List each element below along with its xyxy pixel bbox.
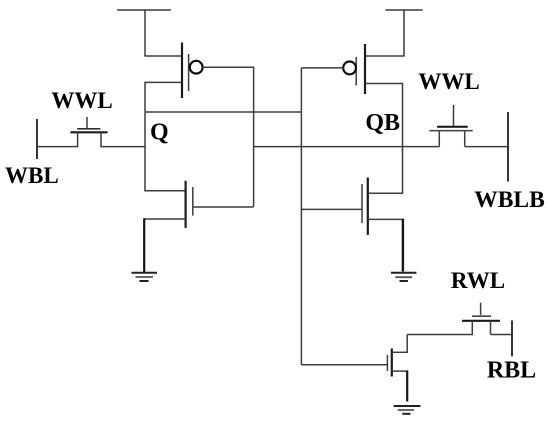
nmos M8 channel	[462, 320, 500, 322]
nmos M5 gate bar	[77, 128, 100, 130]
pmos M3 gate bar	[355, 57, 357, 86]
wire M5 drain lead to node Q	[100, 146, 146, 148]
nmos M4 gate bar	[361, 184, 363, 223]
wire M6 source drop	[438, 131, 440, 147]
svg-text:QB: QB	[365, 110, 400, 136]
nmos M6 channel	[429, 130, 472, 132]
wire M6 drain drop	[464, 131, 466, 147]
pmos M3 gate bubble	[343, 62, 356, 75]
nmos M6 gate bar	[437, 126, 468, 128]
nmos M7 channel	[391, 348, 393, 376]
wire M3 drain lead	[365, 83, 403, 85]
wire M1 source lead	[144, 55, 182, 57]
nmos M5 (WWL left access) gate stub	[86, 117, 88, 129]
wire M6 drain lead to WBLB	[465, 146, 508, 148]
node QB vertical (right inverter output)	[402, 83, 404, 193]
wire M7 drain lead	[392, 351, 407, 353]
wire M3 source lead	[365, 55, 405, 57]
wire M1 gate lead to node QBint	[203, 66, 255, 68]
node Q vertical (left inverter output)	[144, 82, 146, 191]
node Qint long vertical (right inverter input, to read gate)	[300, 68, 302, 365]
nmos M5 channel	[70, 131, 107, 133]
nmos M4 (right pull-down) channel	[367, 178, 369, 235]
wire M7 source to ground	[406, 370, 408, 401]
wire M8 drain lead to RBL	[491, 334, 512, 336]
wire M5 source drop	[77, 132, 79, 146]
pmos M1 gate bubble	[190, 61, 203, 74]
wire M2 drain lead	[144, 190, 185, 192]
svg-text:WBLB: WBLB	[474, 187, 545, 213]
svg-text:WWL: WWL	[51, 88, 112, 113]
wire M3 gate lead to node Qint	[301, 67, 343, 69]
nmos M8 gate bar	[472, 315, 491, 317]
nmos M6 (WWL right access) gate stub	[453, 105, 455, 126]
wire QB row	[254, 146, 440, 148]
svg-text:Q: Q	[150, 120, 169, 146]
ground (right inverter)	[391, 273, 417, 281]
pmos M3 (right pull-up) channel	[364, 44, 366, 94]
nmos M2 gate bar	[192, 187, 194, 216]
nmos M7 (read driver) gate bar	[386, 355, 388, 371]
nmos M8 (RWL read access) gate stub	[480, 303, 482, 315]
wire M4 source to ground	[402, 219, 404, 272]
terminal RBL bar	[511, 320, 513, 356]
wire M4 drain lead	[368, 192, 403, 194]
svg-text:WBL: WBL	[5, 163, 59, 188]
wire M4 gate lead	[301, 208, 362, 210]
ground (left inverter)	[132, 273, 158, 281]
wire M5 source lead to WBL	[37, 146, 78, 148]
wire M5 drain drop	[100, 132, 102, 146]
wire M8 drain drop	[490, 321, 492, 335]
wire M8 source drop	[471, 321, 473, 335]
wire M2 gate lead	[193, 206, 254, 208]
wire read gate lead	[301, 364, 387, 366]
VDD rail left	[117, 9, 171, 56]
nmos M2 (left pull-down) channel	[185, 181, 187, 228]
pmos M1 gate bar	[188, 54, 190, 91]
pmos M1 (left pull-up) channel	[181, 43, 183, 99]
wire M2 source lead	[144, 218, 185, 220]
ground (read stack)	[394, 406, 421, 414]
VDD rail right	[386, 9, 423, 56]
wire M1 drain lead	[145, 81, 182, 83]
wire M7 source lead	[392, 370, 407, 372]
wire M4 source lead	[368, 218, 403, 220]
wire M2 source to ground	[143, 218, 145, 272]
terminal WBLB bar	[507, 112, 509, 182]
wire cross-couple Q to right inverter input	[145, 111, 302, 113]
terminal WBL bar	[36, 119, 38, 159]
svg-text:WWL: WWL	[418, 69, 479, 94]
svg-text:RWL: RWL	[451, 268, 505, 293]
node QBint vertical (left inverter input)	[253, 67, 255, 207]
svg-text:RBL: RBL	[487, 358, 536, 384]
wire M7 drain to M8 source	[407, 334, 473, 336]
wire M7 drain vertical	[406, 335, 408, 354]
